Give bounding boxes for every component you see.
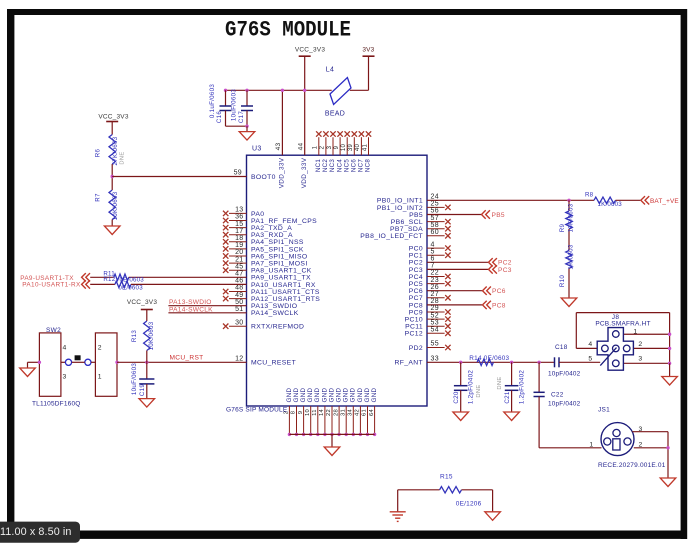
- svg-text:9: 9: [334, 145, 340, 149]
- svg-text:BOOT0: BOOT0: [251, 174, 276, 181]
- svg-text:PC8: PC8: [409, 302, 423, 309]
- svg-text:PA0: PA0: [251, 211, 264, 218]
- svg-text:RECE.20279.001E.01: RECE.20279.001E.01: [598, 462, 666, 469]
- svg-text:10: 10: [305, 409, 311, 416]
- svg-text:10pF/0402: 10pF/0402: [548, 401, 581, 408]
- svg-text:NC8: NC8: [365, 159, 372, 173]
- svg-text:2: 2: [320, 145, 326, 149]
- svg-text:PC0: PC0: [409, 246, 423, 253]
- svg-text:11.00 x 8.50 in: 11.00 x 8.50 in: [0, 526, 72, 538]
- svg-text:1: 1: [313, 145, 319, 149]
- svg-text:DNE: DNE: [120, 151, 126, 164]
- svg-text:R14 0E/0603: R14 0E/0603: [469, 355, 509, 362]
- svg-text:1K/0603: 1K/0603: [598, 201, 623, 208]
- svg-text:PA14_SWCLK: PA14_SWCLK: [251, 310, 299, 317]
- svg-text:0E/0603: 0E/0603: [120, 276, 145, 283]
- svg-text:46: 46: [235, 278, 243, 285]
- svg-text:RXTX/REFMOD: RXTX/REFMOD: [251, 324, 304, 331]
- svg-text:30: 30: [235, 319, 243, 326]
- svg-text:5: 5: [431, 248, 435, 255]
- svg-text:45: 45: [235, 263, 243, 270]
- svg-text:C18: C18: [555, 344, 568, 351]
- svg-text:42: 42: [355, 409, 361, 416]
- svg-text:27K/0603: 27K/0603: [112, 136, 119, 165]
- svg-text:1: 1: [633, 328, 637, 335]
- svg-text:41: 41: [362, 144, 368, 152]
- svg-text:33: 33: [431, 356, 439, 363]
- svg-text:C17: C17: [238, 111, 245, 124]
- svg-text:29: 29: [431, 305, 439, 312]
- svg-text:2: 2: [98, 345, 102, 352]
- svg-text:10K/0603: 10K/0603: [112, 191, 119, 220]
- svg-text:7: 7: [431, 263, 435, 270]
- svg-text:BAT_+VE: BAT_+VE: [650, 198, 679, 205]
- svg-text:PB5: PB5: [492, 212, 505, 219]
- svg-text:PB1_IO_INT2: PB1_IO_INT2: [377, 205, 423, 212]
- svg-text:PC10: PC10: [405, 317, 423, 324]
- svg-text:52: 52: [431, 312, 439, 319]
- svg-text:48: 48: [235, 285, 243, 292]
- svg-text:RF_ANT: RF_ANT: [394, 360, 423, 367]
- svg-text:JS1: JS1: [598, 407, 610, 414]
- svg-text:14: 14: [319, 409, 325, 417]
- svg-text:DNE: DNE: [497, 376, 503, 389]
- svg-text:PC5: PC5: [409, 281, 423, 288]
- svg-text:60: 60: [431, 229, 439, 236]
- svg-text:GND: GND: [293, 387, 300, 402]
- svg-text:DNE: DNE: [476, 384, 482, 397]
- svg-text:PB6_SCL: PB6_SCL: [391, 219, 423, 226]
- svg-text:11: 11: [312, 409, 318, 416]
- svg-text:47: 47: [235, 271, 243, 278]
- svg-text:0E/0603: 0E/0603: [118, 284, 143, 291]
- svg-text:PD2: PD2: [409, 345, 423, 352]
- svg-text:R9: R9: [559, 223, 566, 232]
- svg-text:57: 57: [431, 215, 439, 222]
- svg-text:3: 3: [327, 145, 333, 149]
- svg-text:VDD_33V: VDD_33V: [279, 157, 286, 188]
- svg-text:NC3: NC3: [329, 159, 336, 173]
- svg-text:PC8: PC8: [492, 302, 506, 309]
- svg-text:VCC_3V3: VCC_3V3: [127, 299, 157, 306]
- svg-text:C22: C22: [551, 392, 564, 399]
- svg-text:PC6: PC6: [492, 288, 506, 295]
- svg-text:58: 58: [431, 222, 439, 229]
- svg-text:3: 3: [638, 355, 642, 362]
- svg-text:PC3: PC3: [409, 267, 423, 274]
- svg-text:6: 6: [431, 256, 435, 263]
- svg-text:43: 43: [275, 143, 282, 151]
- svg-text:PA7_SPI1_MOSI: PA7_SPI1_MOSI: [251, 261, 308, 268]
- svg-text:PA8_USART1_CK: PA8_USART1_CK: [251, 268, 312, 275]
- svg-text:NC6: NC6: [351, 159, 358, 173]
- svg-text:0E/1206: 0E/1206: [456, 501, 482, 508]
- svg-text:10pF/0402: 10pF/0402: [548, 370, 581, 377]
- svg-text:PC2: PC2: [498, 260, 512, 267]
- svg-text:GND: GND: [357, 387, 364, 402]
- svg-text:10K/0603: 10K/0603: [148, 321, 155, 350]
- svg-text:10uF/0603: 10uF/0603: [231, 89, 238, 122]
- svg-text:0.1uF/0603: 0.1uF/0603: [209, 84, 216, 119]
- svg-text:25: 25: [431, 201, 439, 208]
- svg-text:39: 39: [348, 144, 354, 152]
- svg-text:50: 50: [235, 299, 243, 306]
- svg-text:61: 61: [362, 409, 368, 416]
- svg-text:3V3: 3V3: [362, 47, 374, 54]
- svg-text:4: 4: [63, 345, 67, 352]
- svg-text:40: 40: [355, 144, 361, 152]
- svg-text:MCU_RESET: MCU_RESET: [251, 360, 296, 367]
- svg-text:5: 5: [588, 355, 592, 362]
- svg-text:PA2_TXD_A: PA2_TXD_A: [251, 225, 292, 232]
- svg-text:20: 20: [235, 249, 243, 256]
- svg-text:PC11: PC11: [405, 324, 423, 331]
- svg-text:GND: GND: [350, 387, 357, 402]
- svg-text:NC2: NC2: [322, 159, 329, 173]
- svg-text:NC5: NC5: [343, 159, 350, 173]
- svg-text:PC2: PC2: [409, 260, 423, 267]
- svg-text:R6: R6: [95, 148, 102, 157]
- svg-text:10K/0603: 10K/0603: [568, 203, 575, 232]
- svg-text:1K/0603: 1K/0603: [568, 244, 575, 269]
- svg-text:21: 21: [235, 256, 243, 263]
- svg-text:PA1_RF_FEM_CPS: PA1_RF_FEM_CPS: [251, 218, 317, 225]
- svg-text:PC1: PC1: [409, 253, 423, 260]
- svg-text:C20: C20: [453, 391, 460, 404]
- svg-text:27: 27: [431, 291, 439, 298]
- svg-text:59: 59: [234, 170, 242, 177]
- svg-text:44: 44: [298, 143, 305, 151]
- svg-text:26: 26: [431, 284, 439, 291]
- svg-text:PC3: PC3: [498, 267, 512, 274]
- svg-text:NC7: NC7: [358, 159, 365, 173]
- svg-text:GND: GND: [343, 387, 350, 402]
- svg-text:PA11_USART1_CTS: PA11_USART1_CTS: [251, 289, 320, 296]
- svg-text:19: 19: [235, 242, 243, 249]
- svg-text:1.2pF/0402: 1.2pF/0402: [468, 370, 475, 405]
- svg-text:4: 4: [431, 241, 435, 248]
- svg-text:PA3_RXD_A: PA3_RXD_A: [251, 232, 293, 239]
- svg-text:R10: R10: [559, 275, 566, 288]
- svg-text:1: 1: [98, 374, 102, 381]
- svg-text:BEAD: BEAD: [325, 111, 345, 118]
- svg-text:2: 2: [284, 411, 290, 415]
- svg-text:28: 28: [333, 409, 339, 416]
- svg-text:8: 8: [291, 411, 297, 415]
- svg-text:51: 51: [235, 306, 243, 313]
- svg-text:2: 2: [639, 441, 643, 448]
- svg-text:1: 1: [589, 441, 593, 448]
- svg-text:PA10-USART1-RX: PA10-USART1-RX: [22, 281, 81, 288]
- svg-text:C16: C16: [216, 111, 223, 124]
- svg-text:13: 13: [235, 207, 243, 214]
- svg-text:GND: GND: [307, 387, 314, 402]
- svg-text:24: 24: [431, 194, 439, 201]
- svg-text:PC6: PC6: [409, 288, 423, 295]
- svg-text:GND: GND: [336, 387, 343, 402]
- svg-text:PB0_IO_INT1: PB0_IO_INT1: [377, 198, 423, 205]
- svg-text:GND: GND: [371, 387, 378, 402]
- svg-text:PB8_IO_LED_FCT: PB8_IO_LED_FCT: [360, 233, 423, 240]
- svg-text:18: 18: [235, 235, 243, 242]
- svg-text:VDD_33V: VDD_33V: [301, 157, 308, 188]
- svg-text:PA13_SWDIO: PA13_SWDIO: [251, 303, 297, 310]
- svg-text:C19: C19: [139, 384, 146, 397]
- svg-text:VCC_3V3: VCC_3V3: [98, 114, 128, 121]
- svg-text:2: 2: [638, 341, 642, 348]
- svg-text:12: 12: [235, 356, 243, 363]
- svg-text:34: 34: [348, 409, 354, 417]
- svg-text:GND: GND: [286, 387, 293, 402]
- svg-text:9: 9: [298, 411, 304, 415]
- svg-text:PCB.SMAFRA.HT: PCB.SMAFRA.HT: [595, 321, 650, 328]
- svg-text:55: 55: [431, 341, 439, 348]
- svg-text:PA4_SPI1_NSS: PA4_SPI1_NSS: [251, 239, 304, 246]
- svg-text:PC4: PC4: [409, 274, 423, 281]
- svg-text:GND: GND: [328, 387, 335, 402]
- svg-text:49: 49: [235, 292, 243, 299]
- svg-text:GND: GND: [364, 387, 371, 402]
- svg-text:22: 22: [431, 270, 439, 277]
- svg-text:NC4: NC4: [336, 159, 343, 173]
- svg-text:4: 4: [588, 341, 592, 348]
- svg-text:3: 3: [639, 426, 643, 433]
- svg-text:64: 64: [369, 409, 375, 417]
- svg-text:NC1: NC1: [315, 159, 322, 173]
- svg-text:PB7_SDA: PB7_SDA: [390, 226, 423, 233]
- svg-text:R8: R8: [585, 191, 594, 198]
- svg-text:R12: R12: [103, 276, 115, 283]
- svg-text:GND: GND: [314, 387, 321, 402]
- svg-text:PC7: PC7: [409, 295, 423, 302]
- svg-text:28: 28: [431, 298, 439, 305]
- svg-text:PA5_SPI1_SCK: PA5_SPI1_SCK: [251, 246, 304, 253]
- svg-text:PC12: PC12: [405, 331, 423, 338]
- svg-text:R7: R7: [95, 193, 102, 202]
- svg-text:10uF/0603: 10uF/0603: [131, 363, 138, 396]
- svg-text:U3: U3: [252, 146, 262, 153]
- svg-text:VCC_3V3: VCC_3V3: [295, 47, 325, 54]
- svg-text:PA9_USART1_TX: PA9_USART1_TX: [251, 275, 311, 282]
- svg-text:PA10_USART1_RX: PA10_USART1_RX: [251, 282, 316, 289]
- svg-text:54: 54: [431, 327, 439, 334]
- svg-text:PB5: PB5: [409, 212, 423, 219]
- svg-text:56: 56: [431, 208, 439, 215]
- svg-text:GND: GND: [300, 387, 307, 402]
- svg-text:PC9: PC9: [409, 309, 423, 316]
- svg-text:36: 36: [235, 214, 243, 221]
- svg-text:3: 3: [63, 374, 67, 381]
- svg-text:1.2pF/0402: 1.2pF/0402: [518, 370, 525, 405]
- svg-text:G76S SIP MODULE: G76S SIP MODULE: [226, 407, 288, 414]
- svg-text:22: 22: [326, 409, 332, 416]
- svg-text:23: 23: [431, 277, 439, 284]
- svg-text:TL1105DF160Q: TL1105DF160Q: [32, 401, 81, 408]
- svg-text:MCU_RST: MCU_RST: [170, 355, 204, 362]
- svg-text:GND: GND: [321, 387, 328, 402]
- svg-text:53: 53: [431, 319, 439, 326]
- svg-text:15: 15: [235, 221, 243, 228]
- svg-text:PA12_USART1_RTS: PA12_USART1_RTS: [251, 296, 320, 303]
- svg-text:R13: R13: [131, 330, 138, 343]
- svg-text:PA6_SPI1_MISO: PA6_SPI1_MISO: [251, 253, 308, 260]
- svg-text:G76S MODULE: G76S MODULE: [225, 17, 351, 43]
- svg-text:C21: C21: [504, 391, 511, 404]
- svg-text:L4: L4: [326, 67, 334, 74]
- svg-text:31: 31: [340, 409, 346, 416]
- svg-text:R15: R15: [440, 474, 453, 481]
- svg-text:17: 17: [235, 228, 243, 235]
- svg-text:10: 10: [341, 144, 347, 152]
- svg-text:SW2: SW2: [46, 327, 61, 334]
